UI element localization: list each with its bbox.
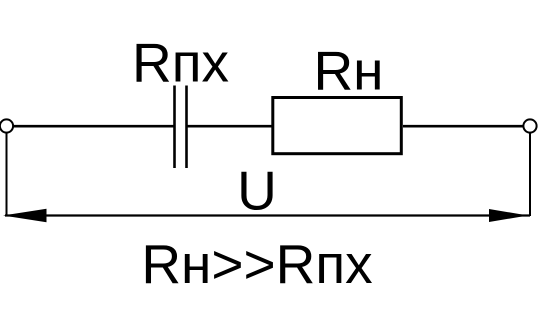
dimension extension line left [6, 133, 8, 216]
wire: Rpx right plate to resistor Rn [187, 125, 272, 128]
dimension extension line right [529, 134, 531, 217]
contact Rpx right plate [185, 86, 188, 169]
resistor Rn body [273, 98, 402, 154]
dimension line U [5, 214, 530, 216]
svg-text:Rн>>Rпх: Rн>>Rпх [141, 233, 372, 295]
contact Rpx left plate [173, 86, 176, 169]
left terminal T1 [0, 119, 13, 132]
dimension arrowhead left [3, 209, 47, 223]
wire: resistor Rn to right terminal [403, 125, 523, 128]
dimension arrowhead right [489, 209, 528, 222]
svg-text:U: U [237, 160, 277, 222]
svg-text:Rпх: Rпх [132, 31, 229, 93]
wire: left terminal to Rpx left plate [13, 125, 174, 128]
right terminal T2 [523, 119, 536, 132]
svg-text:Rн: Rн [313, 39, 383, 101]
